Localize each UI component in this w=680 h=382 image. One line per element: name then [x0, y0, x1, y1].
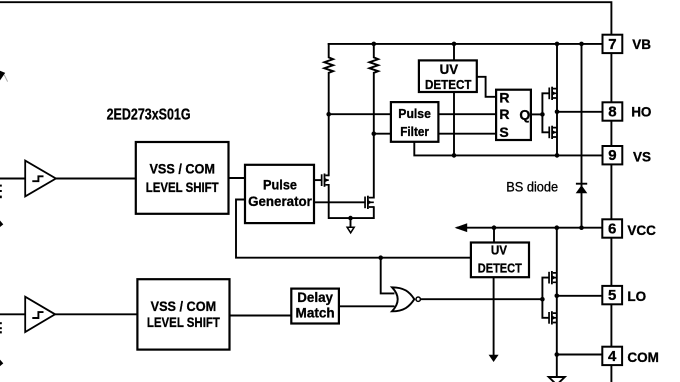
ground COM bottom: [549, 377, 565, 382]
svg-text:2ED273xS01G: 2ED273xS01G: [107, 106, 191, 123]
wire NOR lower input: [339, 305, 394, 307]
wire NOR upper input: [381, 258, 394, 294]
svg-text:Match: Match: [296, 305, 335, 320]
block UV detect 2: [471, 243, 529, 278]
svg-text:Generator: Generator: [248, 194, 312, 209]
wire VS net: [414, 142, 602, 156]
svg-text:R: R: [499, 89, 509, 105]
wire level shift 1 to pulse generator: [229, 177, 246, 179]
wire LO gate bus: [542, 278, 548, 318]
arrow UV detect 2 down to VSS: [489, 355, 499, 362]
svg-text:VSS / COM: VSS / COM: [149, 161, 215, 177]
svg-text:LO: LO: [627, 289, 646, 304]
wire M1 gate: [314, 179, 321, 181]
wire ground stem mid: [350, 218, 352, 227]
NOR gate G1: [392, 287, 420, 311]
wire UV detect 1 to VS line: [453, 92, 455, 155]
block pulse generator: [245, 165, 314, 223]
pin 7 box: [603, 35, 623, 53]
transistor Q4 HO driver lower: [548, 126, 557, 139]
wire LIN signal pulse generator to UV detect 2: [236, 200, 471, 258]
wire node R1 to pulse filter to latch R: [329, 113, 496, 115]
svg-text:Q: Q: [519, 107, 530, 123]
resistor R1: [324, 44, 333, 114]
svg-text:DETECT: DETECT: [478, 260, 522, 275]
block SR latch U3: [496, 89, 531, 140]
wire top border line to pin 7: [0, 2, 611, 35]
wire M2 gate: [314, 201, 364, 203]
pin 6 box: [602, 219, 622, 237]
wire LO node to pin 5: [557, 295, 603, 297]
svg-text:8: 8: [608, 104, 616, 121]
svg-text:VB: VB: [632, 37, 651, 52]
transistor Q6 LO driver lower: [548, 311, 557, 324]
wire VCC row: [458, 227, 603, 229]
svg-text:6: 6: [608, 221, 616, 238]
svg-text:4: 4: [608, 348, 617, 365]
ground mid pulse generator stage: [347, 227, 354, 233]
svg-text:UV: UV: [440, 61, 459, 77]
schmitt trigger buffer U1: [25, 161, 56, 197]
svg-text:VSS / COM: VSS / COM: [151, 298, 217, 314]
wire HO node to pin 8: [557, 111, 603, 113]
svg-text:7: 7: [608, 36, 616, 53]
svg-text:Pulse: Pulse: [398, 106, 431, 121]
node clipped text marks left edge upper: [0, 185, 3, 227]
svg-text:LEVEL SHIFT: LEVEL SHIFT: [147, 314, 220, 330]
svg-text:5: 5: [608, 287, 616, 304]
wire VB rail: [329, 43, 603, 45]
svg-text:VCC: VCC: [627, 223, 656, 238]
wire R2 to M2 drain: [373, 134, 375, 198]
block delay match: [291, 289, 339, 324]
svg-text:LEVEL SHIFT: LEVEL SHIFT: [146, 179, 219, 195]
svg-text:S: S: [499, 124, 508, 140]
wire R1 to M1 drain: [328, 114, 330, 175]
wire schmitt 2 output to level shift 2: [55, 313, 137, 315]
svg-text:Pulse: Pulse: [263, 177, 297, 192]
block level shift 2 VSS/COM: [137, 279, 229, 349]
pin 4 box: [602, 347, 622, 365]
block level shift 1 VSS/COM: [136, 142, 229, 214]
transistor M2 pulse generator NMOS: [364, 196, 374, 209]
transistor Q3 HO driver upper: [548, 87, 557, 100]
transistor Q5 LO driver upper: [548, 271, 557, 284]
wire bootstrap diode branch VB to VCC: [581, 44, 583, 228]
svg-text:BS diode: BS diode: [506, 180, 558, 195]
wire schmitt 2 input: [0, 313, 25, 315]
svg-text:HO: HO: [631, 105, 651, 120]
svg-text:9: 9: [608, 147, 616, 164]
wire VB to HO half-bridge rail: [556, 44, 558, 155]
wire VCC to UV detect 2: [493, 228, 495, 243]
schmitt trigger buffer U2: [25, 297, 55, 332]
wire HO gate bus: [542, 93, 548, 132]
arrow VCC line left arrowhead: [455, 223, 468, 232]
wire latch Q output: [531, 113, 543, 115]
wire M1 M2 sources to ground node: [329, 185, 374, 218]
node junction dots: [326, 42, 583, 357]
block UV detect 1: [419, 60, 477, 92]
block pulse filter: [391, 102, 439, 142]
wire level shift 2 to delay match: [230, 315, 292, 317]
svg-text:DETECT: DETECT: [425, 77, 472, 92]
pin 5 box: [602, 286, 622, 304]
resistor R2: [369, 44, 378, 134]
arrow clipped top-left annotation: [0, 71, 8, 82]
wire VB rail to UV detect 1: [453, 44, 455, 61]
pin 9 box: [603, 146, 623, 164]
wire UV detect 1 output to latch R: [477, 77, 496, 97]
wire VCC to LO half-bridge rail to COM: [556, 228, 558, 355]
svg-text:UV: UV: [491, 243, 507, 258]
svg-text:VS: VS: [633, 149, 651, 164]
wire schmitt 1 input: [0, 178, 25, 180]
pin 8 box: [603, 102, 623, 120]
svg-text:R: R: [499, 106, 509, 122]
wire COM to ground: [556, 355, 558, 377]
wire pin column segments: [610, 53, 612, 382]
wire node R2 to pulse filter to latch S: [374, 133, 496, 135]
node clipped text marks left edge lower: [0, 322, 3, 366]
diode D1 bootstrap BS diode: [576, 184, 588, 194]
wire NOR output to LO gate bus: [421, 298, 543, 300]
svg-text:COM: COM: [627, 350, 659, 365]
wire schmitt 1 output to level shift 1: [56, 178, 136, 180]
wire UV detect 2 to VSS arrow: [493, 277, 495, 355]
svg-text:Filter: Filter: [400, 124, 429, 139]
transistor M1 pulse generator NMOS: [321, 174, 329, 187]
wire COM row to pin 4: [557, 354, 603, 356]
svg-text:Delay: Delay: [297, 290, 333, 305]
